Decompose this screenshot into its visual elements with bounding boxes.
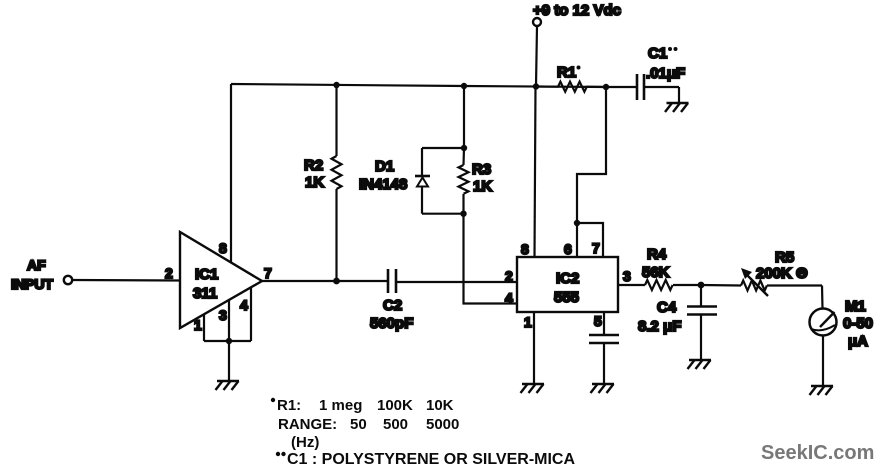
power terminal +9 to 12 Vdc bbox=[533, 2, 621, 86]
capacitor C1 bbox=[606, 45, 685, 103]
node: D1-R3 bottom junction bbox=[460, 211, 466, 217]
svg-text:IC2: IC2 bbox=[556, 270, 579, 287]
svg-text:+9 to 12 Vdc: +9 to 12 Vdc bbox=[533, 2, 621, 19]
svg-text:SeekIC.com: SeekIC.com bbox=[761, 442, 874, 464]
node: rail-R3 junction bbox=[461, 83, 467, 89]
svg-text:50: 50 bbox=[350, 416, 367, 433]
svg-text:100K: 100K bbox=[377, 397, 413, 414]
watermark SeekIC.com bbox=[761, 442, 874, 464]
svg-text:6: 6 bbox=[564, 241, 572, 257]
svg-text:10K: 10K bbox=[426, 397, 454, 414]
pin 8 label IC2 bbox=[521, 241, 529, 257]
node: R4-C4 junction bbox=[698, 282, 705, 289]
ground: IC1 bbox=[216, 381, 240, 390]
svg-text:1K: 1K bbox=[305, 174, 324, 191]
svg-text:7: 7 bbox=[592, 240, 600, 256]
ground: IC2 pin 1 bbox=[521, 384, 545, 393]
svg-text:4: 4 bbox=[505, 290, 513, 306]
svg-text:200K Θ: 200K Θ bbox=[756, 265, 808, 282]
svg-text:7: 7 bbox=[264, 265, 272, 281]
svg-text:1 meg: 1 meg bbox=[319, 397, 362, 414]
wire: IC1 ground drop bbox=[228, 341, 230, 381]
note: R1 range table bbox=[271, 397, 460, 451]
wire: supply drop to IC2 pin 8 bbox=[535, 86, 536, 257]
svg-text:5000: 5000 bbox=[426, 416, 459, 433]
svg-text:C4: C4 bbox=[657, 299, 677, 316]
svg-text:56K: 56K bbox=[642, 264, 670, 281]
svg-text:IN4148: IN4148 bbox=[359, 176, 407, 193]
svg-text:IC1: IC1 bbox=[195, 266, 218, 283]
svg-text:5: 5 bbox=[594, 313, 602, 329]
svg-text:3: 3 bbox=[219, 307, 227, 323]
potentiometer R5 bbox=[701, 249, 822, 296]
svg-text:500: 500 bbox=[383, 416, 408, 433]
wire: IC1 bottom tie bbox=[204, 340, 251, 342]
wire: meter to ground bbox=[822, 336, 824, 387]
ground: M1 bbox=[810, 386, 834, 395]
svg-text:1: 1 bbox=[194, 317, 202, 333]
svg-text:R1: R1 bbox=[557, 64, 576, 81]
pin 3 label IC1 bbox=[219, 307, 227, 323]
pin 1 label IC1 bbox=[194, 317, 202, 333]
svg-text:4: 4 bbox=[240, 297, 248, 313]
ground: C4 bbox=[688, 360, 712, 369]
wire: R1 junction down to pins 6-7 bbox=[577, 87, 606, 223]
svg-text:1K: 1K bbox=[473, 178, 492, 195]
node: R1-C1 junction bbox=[603, 84, 609, 90]
svg-text:R1:: R1: bbox=[277, 397, 301, 414]
resistor R3 bbox=[459, 148, 493, 214]
svg-text:C1: C1 bbox=[648, 45, 667, 62]
pin 7 label IC2 bbox=[592, 240, 600, 256]
svg-text:8.2 μF: 8.2 μF bbox=[638, 318, 681, 335]
pin 2 label IC1 bbox=[165, 265, 173, 281]
pin 5 label IC2 bbox=[594, 313, 602, 329]
resistor R1 bbox=[536, 64, 606, 92]
capacitor C2 bbox=[370, 269, 413, 332]
capacitor C4 bbox=[638, 285, 717, 360]
svg-text:INPUT: INPUT bbox=[11, 276, 53, 292]
pin 2 label IC2 bbox=[505, 268, 513, 284]
op-amp IC1 311 bbox=[180, 232, 262, 328]
wire: IC1 pin 4 stub bbox=[250, 287, 252, 341]
wire: IC2 pin 1 to ground bbox=[533, 312, 535, 384]
svg-text:D1: D1 bbox=[375, 158, 394, 175]
wire: pin 7 link bbox=[577, 223, 603, 257]
svg-text:8: 8 bbox=[219, 240, 227, 256]
svg-text:2: 2 bbox=[505, 268, 513, 284]
svg-text:1: 1 bbox=[524, 314, 532, 330]
wire: pin 8 riser from IC1 to rail bbox=[230, 84, 232, 262]
svg-text:R2: R2 bbox=[304, 157, 323, 174]
wire: R3 bottom to IC2 pin 4 bbox=[464, 214, 518, 304]
pin 4 label IC1 bbox=[240, 297, 248, 313]
node: D1-R3 top junction bbox=[461, 145, 467, 151]
svg-text:R4: R4 bbox=[647, 246, 667, 263]
diode D1 bbox=[359, 86, 464, 214]
capacitor: IC2 pin 5 bypass bbox=[589, 312, 619, 384]
resistor R4 bbox=[618, 246, 701, 290]
svg-text:.01μF: .01μF bbox=[646, 65, 685, 82]
svg-text:(Hz): (Hz) bbox=[291, 434, 319, 451]
wire: top supply rail bbox=[231, 84, 606, 87]
node: rail-supply junction bbox=[533, 83, 539, 89]
node: rail-R2 junction bbox=[333, 82, 339, 88]
IC2 555 bbox=[517, 257, 618, 312]
note: C1 type bbox=[276, 451, 576, 468]
meter M1 bbox=[810, 298, 874, 350]
node: output-R2 junction bbox=[333, 278, 340, 285]
svg-text:R5: R5 bbox=[775, 249, 794, 266]
AF INPUT terminal bbox=[11, 257, 180, 292]
ground: C1 bbox=[665, 103, 689, 112]
wire: C2 to IC2 pin 2 bbox=[396, 281, 517, 283]
svg-text:AF: AF bbox=[27, 257, 46, 273]
svg-text:311: 311 bbox=[193, 285, 217, 302]
pin 3 label IC2 bbox=[623, 268, 631, 284]
svg-text:RANGE:: RANGE: bbox=[278, 416, 337, 433]
svg-text:560pF: 560pF bbox=[370, 315, 413, 332]
pin 1 label IC2 bbox=[524, 314, 532, 330]
svg-text:8: 8 bbox=[521, 241, 529, 257]
svg-text:R3: R3 bbox=[472, 161, 491, 178]
svg-text:3: 3 bbox=[623, 268, 631, 284]
svg-text:555: 555 bbox=[554, 289, 579, 306]
svg-text:0-50: 0-50 bbox=[843, 315, 873, 332]
wire: IC1 output to C2 bbox=[262, 280, 388, 282]
ground: IC2 pin 5 bbox=[591, 384, 615, 393]
svg-text:C1 : POLYSTYRENE OR SILVER-MIC: C1 : POLYSTYRENE OR SILVER-MICA bbox=[287, 451, 575, 468]
pin 6 label IC2 bbox=[564, 241, 572, 257]
node: IC1 ground junction bbox=[226, 338, 232, 344]
pin 8 label IC1 bbox=[219, 240, 227, 256]
svg-text:C2: C2 bbox=[383, 297, 402, 314]
svg-text:2: 2 bbox=[165, 265, 173, 281]
wire: R5 to meter bbox=[821, 286, 824, 309]
pin 4 label IC2 bbox=[505, 290, 513, 306]
svg-text:M1: M1 bbox=[845, 298, 866, 315]
wire: IC1 pin 3 stub bbox=[228, 300, 230, 341]
resistor R2 bbox=[304, 85, 342, 281]
wire: pin 6 stub bbox=[576, 223, 578, 257]
node: pin6 junction bbox=[574, 220, 580, 226]
svg-text:μA: μA bbox=[848, 333, 868, 350]
pin 7 label IC1 bbox=[264, 265, 272, 281]
wire: IC1 pin 1 stub bbox=[203, 314, 205, 341]
